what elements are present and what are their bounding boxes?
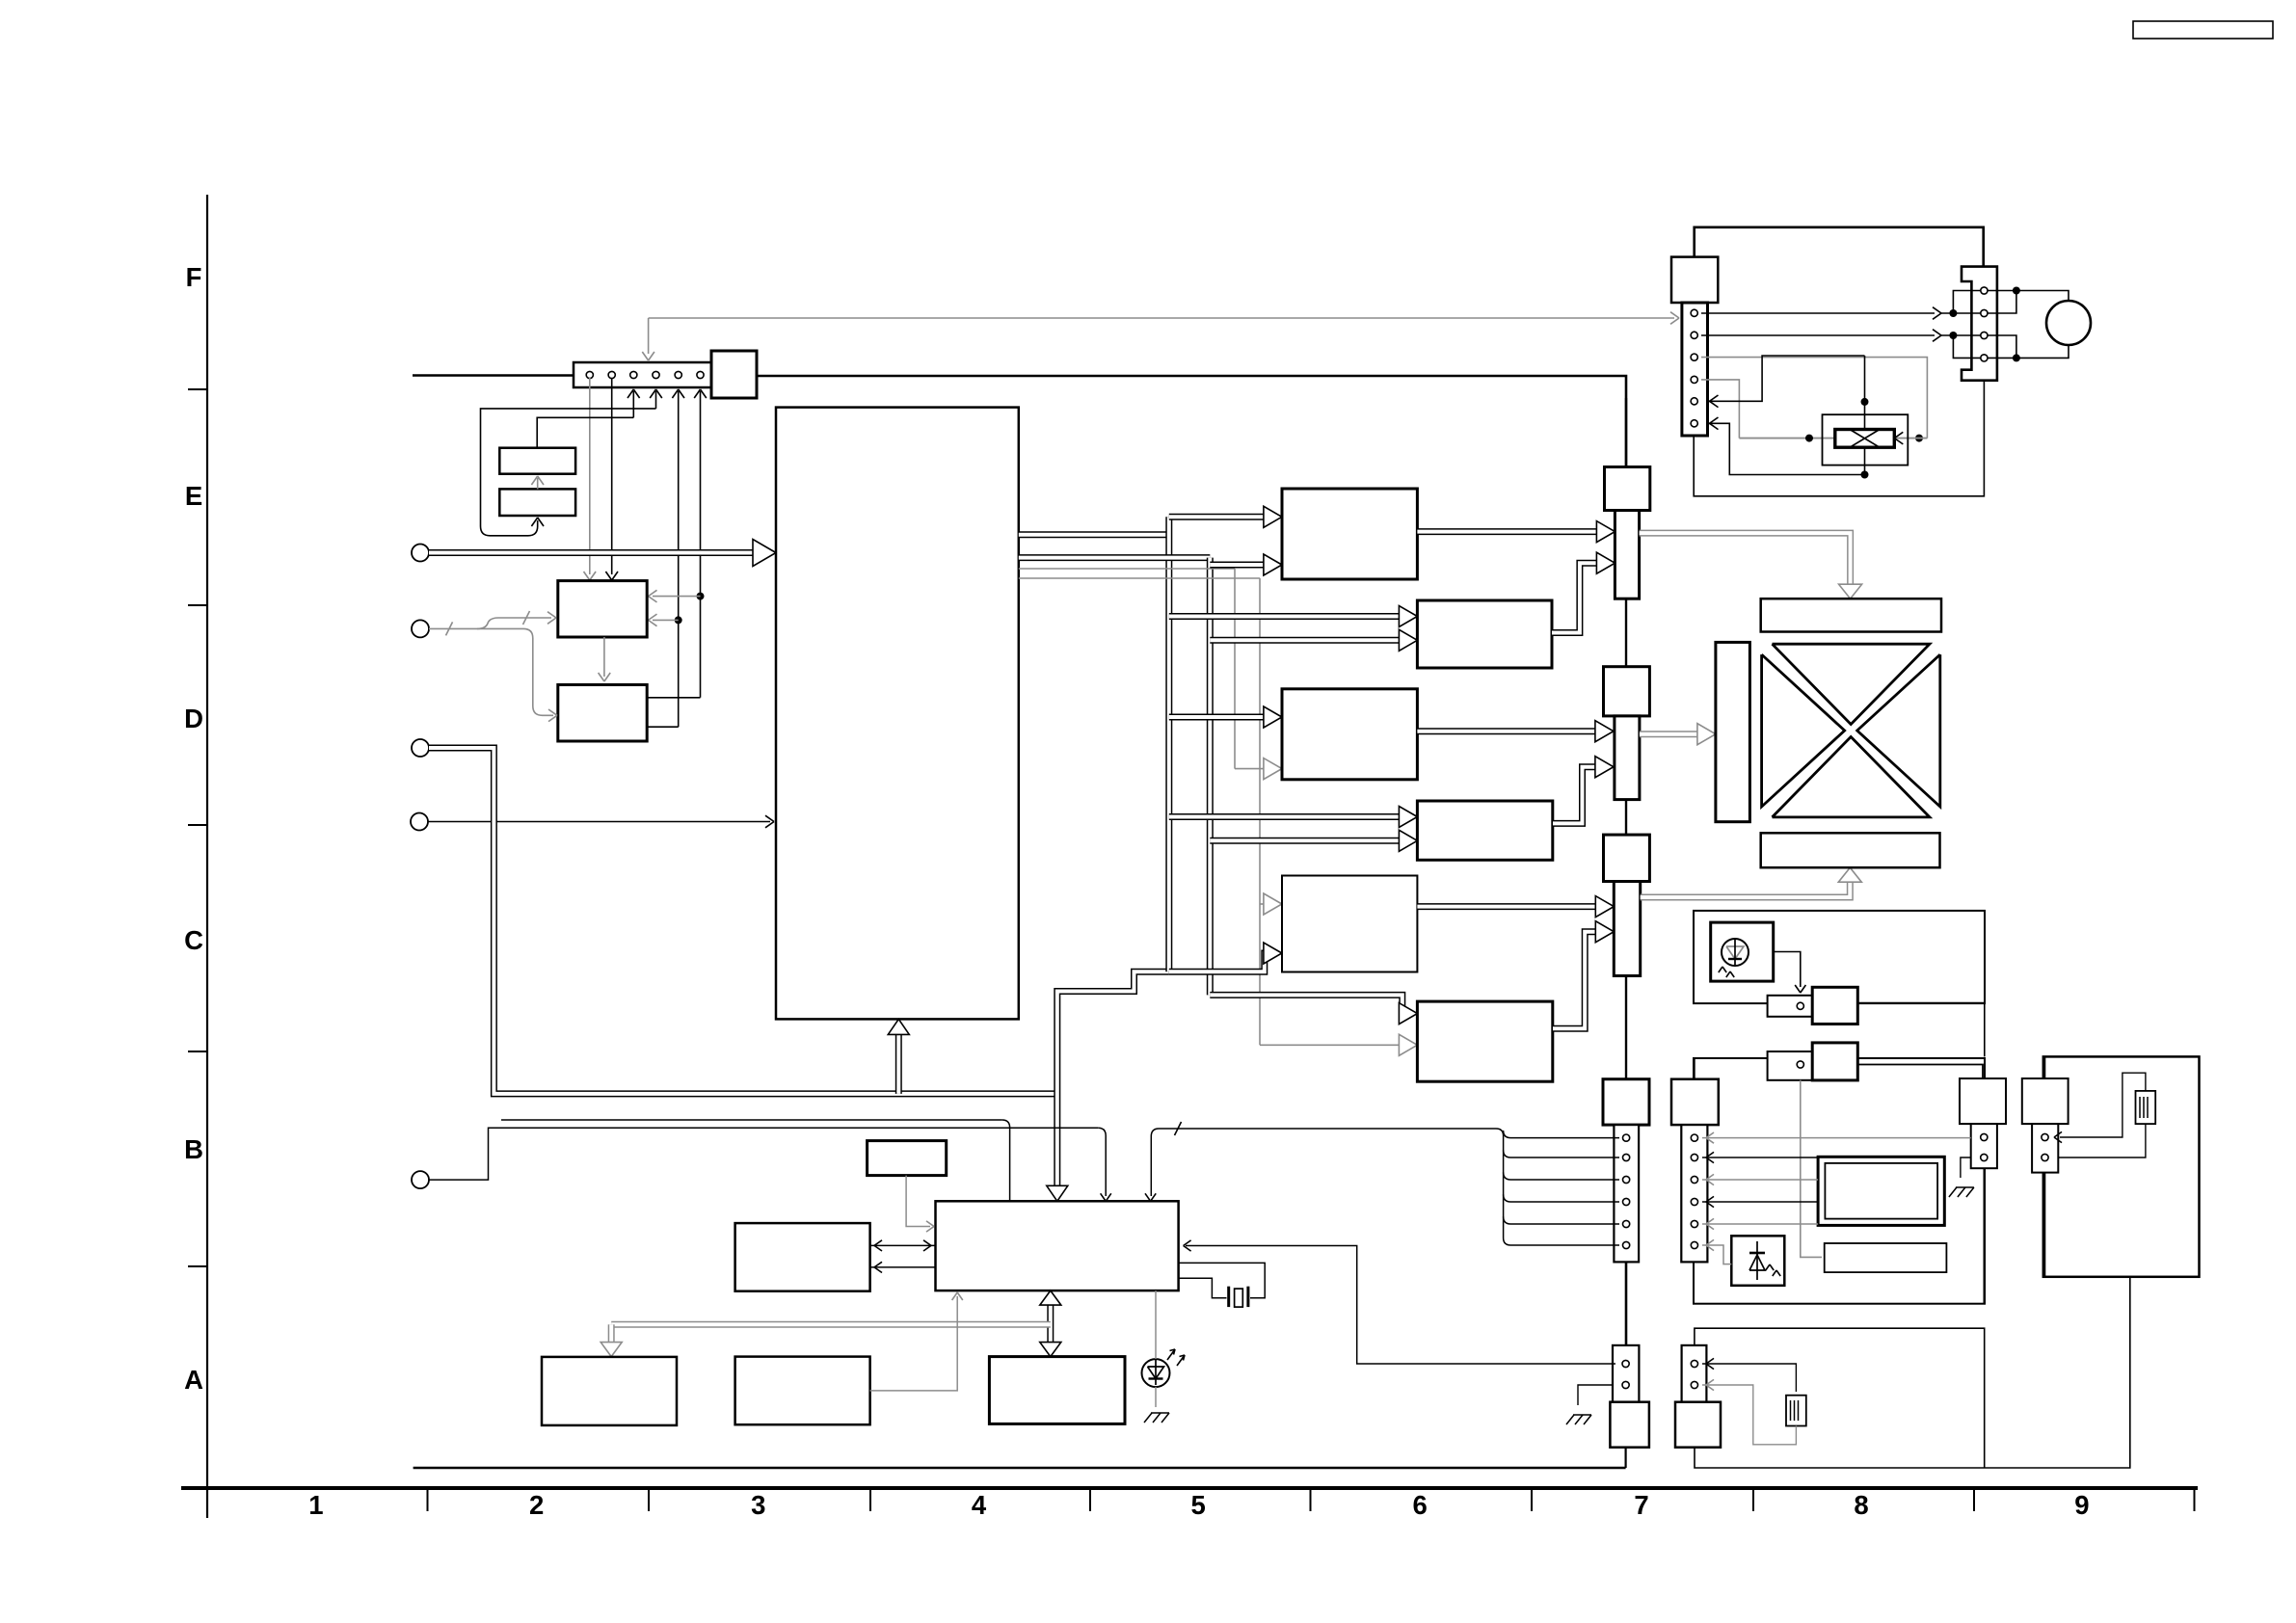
port P2 bbox=[412, 620, 429, 637]
ribbon branches bbox=[1504, 1131, 1619, 1138]
wire IC602 MCU bus2 bbox=[870, 1266, 936, 1268]
bus stub A1 in2 bbox=[1210, 562, 1269, 569]
wire H1 to CN207 pin1 bbox=[2060, 1073, 2146, 1137]
wire CN302 pin4 path bbox=[1701, 380, 1739, 439]
bus IC205 out2 bbox=[1019, 554, 1211, 561]
svg-text:6: 6 bbox=[1412, 1490, 1427, 1520]
svg-text:5: 5 bbox=[1190, 1490, 1205, 1520]
box IC202 bbox=[499, 448, 575, 474]
connector CN204 bbox=[1768, 996, 1813, 1017]
bus V1 bottom to A5 in2 bbox=[1169, 953, 1269, 971]
wire J1 to region2 bbox=[1857, 1003, 1985, 1057]
box A4 bbox=[1417, 801, 1552, 860]
wire CN302 pin6 path bbox=[1709, 423, 1865, 474]
symbol LED1 photo sensor bbox=[1722, 939, 1749, 966]
connector CN206 narrow bbox=[1971, 1124, 1997, 1168]
wire CN211 row3 bbox=[1702, 1179, 1818, 1181]
bus A6 out bbox=[1553, 932, 1601, 1029]
bus vertical V1 bbox=[1165, 517, 1172, 971]
svg-text:9: 9 bbox=[2074, 1490, 2089, 1520]
CN101 pins bbox=[586, 371, 593, 378]
box IC201 bbox=[558, 581, 647, 637]
junction pin6 bbox=[697, 593, 705, 600]
box photodiode PD1 bbox=[1731, 1236, 1784, 1286]
svg-text:3: 3 bbox=[751, 1490, 765, 1520]
cross box left triangle bbox=[1762, 654, 1845, 807]
connector CN203 body bbox=[1604, 835, 1650, 881]
wire gray stub A6 in2 bbox=[1260, 1044, 1404, 1046]
box A8 bbox=[542, 1357, 677, 1425]
wire CN211 row2 bbox=[1702, 1157, 1818, 1158]
wire CN101 pin1 to IC201 top bbox=[589, 378, 591, 574]
wire P2 split bbox=[429, 628, 553, 715]
wire CN302 pin2 to CN303 bbox=[1701, 334, 1935, 336]
box J2 bbox=[1812, 1043, 1857, 1080]
bus stub A4 in2 bbox=[1210, 838, 1404, 844]
fuse outer loop bbox=[1823, 414, 1909, 465]
wire IC201 to IC204 bbox=[603, 637, 605, 677]
wire CN205 to resistor box bbox=[1801, 1080, 1822, 1258]
wire IC203 to IC202 bbox=[537, 478, 539, 489]
wire CN209 stem to frame bbox=[1624, 1448, 1626, 1468]
bus CN202 out to driver bbox=[1640, 731, 1703, 737]
box J1 bbox=[1812, 987, 1857, 1024]
bus stub A1 in1 bbox=[1169, 514, 1269, 520]
wire CN210 top loop bbox=[1695, 1328, 1985, 1467]
box A7 bbox=[989, 1357, 1125, 1424]
bus stub A2 in2 bbox=[1210, 637, 1404, 644]
box MCU IC601 bbox=[936, 1201, 1179, 1290]
wire CN211 row5 bbox=[1702, 1223, 1818, 1225]
CN211 pins bbox=[1691, 1134, 1697, 1141]
bus P1 to IC205 bbox=[429, 549, 762, 556]
wire CN209 pin2 to ground bbox=[1578, 1385, 1613, 1405]
wire IC602 MCU bus1 bbox=[870, 1244, 936, 1246]
wire J2 to CN206 bbox=[1857, 1065, 1983, 1079]
grid bottom axis line bbox=[181, 1486, 2198, 1490]
region board KEY1 bbox=[2043, 1056, 2200, 1276]
wire fuse row bbox=[1739, 438, 1927, 439]
wire crystal top bbox=[1179, 1263, 1266, 1297]
connector CN210 strip bbox=[1682, 1345, 1707, 1402]
wire CN210 pin2 to H2 bbox=[1702, 1385, 1796, 1445]
svg-text:7: 7 bbox=[1634, 1490, 1648, 1520]
bus A2 out bbox=[1552, 563, 1602, 632]
symbol LED2 bbox=[1142, 1359, 1170, 1387]
connector CN207 narrow bbox=[2032, 1124, 2058, 1173]
wire CN101 pin5 down bbox=[678, 391, 680, 727]
connector CN211 strip bbox=[1681, 1125, 1707, 1262]
bus A5 out bbox=[1417, 903, 1601, 910]
page label box top right bbox=[2133, 21, 2273, 39]
bus IC205 out1 bbox=[1019, 531, 1169, 538]
connector CN209 strip bbox=[1613, 1345, 1639, 1402]
wire S1 to CN204 bbox=[1774, 952, 1801, 988]
box driver bar bbox=[1716, 642, 1750, 821]
connector CN207 body bbox=[2022, 1078, 2069, 1124]
bus CN201 out to top bar bbox=[1640, 533, 1851, 586]
CN210 pins bbox=[1691, 1360, 1697, 1367]
box IC602 bbox=[735, 1223, 870, 1291]
wire A9 to MCU bbox=[870, 1296, 958, 1391]
bus vertical V2 bbox=[1207, 558, 1214, 996]
grid left axis ticks bbox=[188, 388, 207, 390]
box LCD outer bbox=[1818, 1157, 1944, 1225]
wire MCU ribbon to CN208 bbox=[501, 1119, 1002, 1121]
svg-text:4: 4 bbox=[972, 1490, 987, 1520]
connector strip CN101 bbox=[574, 362, 711, 387]
wire CN101 pin3 to IC202 bbox=[537, 417, 633, 447]
bus MCU to A7 bbox=[1047, 1299, 1054, 1347]
wire CN303 right join bottom bbox=[1997, 335, 2016, 358]
svg-text:E: E bbox=[185, 481, 202, 511]
wire CN301 top loop bbox=[1695, 227, 1984, 267]
box R1 long bbox=[1825, 1243, 1947, 1272]
arrow into fuse bbox=[1894, 432, 1903, 438]
wire gray stub A5 in1 bbox=[1260, 903, 1269, 905]
connector CN205 bbox=[1768, 1051, 1813, 1080]
wire fuse bottom vertical bbox=[1864, 447, 1866, 474]
svg-text:1: 1 bbox=[308, 1490, 323, 1520]
CN302 pins bbox=[1691, 309, 1697, 316]
wire gray G1 vertical bbox=[1019, 568, 1235, 570]
box CN301 bbox=[1671, 257, 1718, 303]
port P5 bbox=[412, 1171, 429, 1188]
svg-text:F: F bbox=[186, 262, 202, 292]
box IC205 main IC bbox=[776, 408, 1019, 1020]
box IC204 bbox=[558, 685, 647, 742]
grid left axis line bbox=[206, 195, 208, 1518]
wire LED2 to ground bbox=[1155, 1387, 1157, 1407]
port P4 bbox=[411, 813, 428, 831]
junction w1 bbox=[1949, 309, 1957, 317]
wire CN303 right join top bbox=[1997, 291, 2016, 314]
bus stub A4 in1 bbox=[1169, 813, 1404, 820]
box LCD inner bbox=[1825, 1163, 1937, 1219]
connector CN203 narrow bbox=[1614, 882, 1640, 976]
CN207 pins bbox=[2042, 1133, 2048, 1140]
wire CN211 row4 bbox=[1702, 1201, 1818, 1203]
wire CN102 to main bus bbox=[757, 376, 1626, 467]
box A3 bbox=[1282, 689, 1417, 780]
wire CN211 row6 to PD1 bbox=[1702, 1245, 1731, 1264]
wire CN302 pin1 to CN303 bbox=[1701, 312, 1935, 314]
bus down to A8 bbox=[608, 1324, 615, 1345]
ground GND1 bbox=[1566, 1415, 1574, 1424]
box photo interrupter H2 bbox=[1786, 1396, 1806, 1426]
wire P5 to MCU bbox=[429, 1128, 1098, 1180]
box A5 bbox=[1282, 876, 1417, 972]
wire IC603 to MCU bbox=[906, 1176, 930, 1227]
svg-text:C: C bbox=[184, 925, 203, 955]
junction m2 bbox=[2013, 354, 2020, 361]
wire CN302 pin5 path bbox=[1709, 356, 1865, 401]
connector CN208 strip bbox=[1614, 1125, 1639, 1262]
junction pin5 bbox=[675, 616, 682, 624]
wire crystal bottom bbox=[1179, 1278, 1227, 1298]
region board DISPLAY2 bbox=[1694, 1058, 1985, 1304]
motor M bbox=[2046, 301, 2091, 345]
bus A3 out bbox=[1417, 728, 1600, 734]
wire to motor top bbox=[2016, 291, 2069, 302]
wire MCU to LED2 bbox=[1155, 1290, 1157, 1359]
bus P3 long bbox=[429, 748, 1057, 1094]
grid bottom axis ticks bbox=[206, 1488, 208, 1511]
CN206 pins bbox=[1981, 1133, 1988, 1140]
bus stub A3 in1 bbox=[1169, 714, 1269, 721]
wire CN101 pin6 down bbox=[700, 391, 702, 698]
wire CN211 row1 bbox=[1702, 1137, 1971, 1139]
wire gray G2 vertical bbox=[1019, 577, 1260, 579]
connector CN208 body bbox=[1603, 1079, 1649, 1125]
junction f3 bbox=[1861, 398, 1869, 406]
wire CN207 top link bbox=[2044, 1056, 2046, 1078]
cross box bottom triangle bbox=[1773, 737, 1930, 817]
box A2 bbox=[1417, 600, 1552, 668]
bus branch up into IC205 bottom bbox=[895, 1027, 902, 1094]
svg-text:8: 8 bbox=[1854, 1490, 1868, 1520]
main bus vertical bbox=[1625, 398, 1627, 1079]
CN209 pins bbox=[1622, 1360, 1629, 1367]
wire CN207 pin2 to H1 bbox=[2058, 1124, 2146, 1157]
bar box top bbox=[1761, 599, 1941, 631]
wire CN209 pin1 to MCU bbox=[1186, 1246, 1615, 1365]
junction f4 bbox=[1861, 471, 1869, 479]
svg-text:B: B bbox=[184, 1134, 203, 1164]
wire gray drop into CN101 bbox=[648, 318, 650, 354]
connector CN210 body bbox=[1675, 1402, 1721, 1448]
box photo interrupter H1 bbox=[2136, 1091, 2156, 1124]
junction m1 bbox=[2013, 287, 2020, 295]
ground GND2 bbox=[1144, 1413, 1152, 1423]
connector CN209 body bbox=[1610, 1402, 1649, 1448]
bus stub A2 in1 bbox=[1169, 613, 1404, 620]
port P1 bbox=[412, 545, 429, 562]
wire CN206 stem bbox=[1983, 1168, 1985, 1304]
connector CN211 body bbox=[1671, 1079, 1719, 1125]
wire stub left of strip CN101 bbox=[413, 374, 574, 377]
bar box bottom bbox=[1761, 833, 1940, 867]
wire CN303 row4 bracket bbox=[1953, 335, 1996, 358]
port P3 bbox=[412, 739, 429, 757]
wire bottom frame bbox=[414, 1467, 1626, 1470]
connector box CN102 bbox=[711, 351, 757, 398]
cross box right triangle bbox=[1857, 654, 1940, 807]
wire gray to right strip bbox=[649, 317, 1674, 319]
svg-text:D: D bbox=[184, 704, 203, 733]
wire CN101 pin4 to IC203 bbox=[481, 409, 656, 536]
cross box top triangle bbox=[1773, 644, 1930, 724]
junction f2 bbox=[1805, 435, 1813, 442]
wire P2 branch to IC201 bbox=[477, 618, 551, 628]
connector strip CN302 bbox=[1682, 303, 1708, 436]
wire CN101 pin2 to IC201 top bbox=[611, 378, 613, 574]
wire fuse top vertical bbox=[1864, 356, 1866, 430]
junction w2 bbox=[1949, 332, 1957, 339]
wire P4 to IC205 bbox=[428, 821, 770, 823]
wire CN302 bottom loop bbox=[1694, 381, 1984, 496]
bus A4 out bbox=[1553, 767, 1600, 824]
connector CN201 narrow bbox=[1615, 511, 1639, 599]
CN303 pins bbox=[1981, 287, 1988, 294]
box IC603 reset bbox=[868, 1141, 947, 1176]
crystal X601 bbox=[1227, 1287, 1230, 1307]
wire CN303 row1 bracket bbox=[1953, 291, 1996, 314]
svg-text:A: A bbox=[184, 1365, 203, 1395]
wire CN206 pin2 to ground bbox=[1961, 1157, 1971, 1178]
connector CN303 motor plug bbox=[1962, 267, 1997, 381]
bus cross link bbox=[611, 1321, 1051, 1328]
wire CN211 top link bbox=[1694, 1058, 1695, 1079]
wire MCU pin to CN208 ribbon bbox=[1151, 1129, 1619, 1245]
wire pin6 branch to IC201 bbox=[653, 596, 701, 598]
wire to motor bottom bbox=[2016, 345, 2069, 358]
box IC203 bbox=[499, 489, 575, 516]
wire CN207 stem bbox=[2044, 1173, 2046, 1277]
wire CN302 pin3 path bbox=[1701, 358, 1927, 439]
bus V2 bottom to A6 in1 bbox=[1210, 995, 1404, 1013]
box sensor S1 bbox=[1711, 922, 1774, 981]
wire gray stub A3 in2 bbox=[1235, 768, 1269, 770]
box A9 bbox=[735, 1357, 870, 1425]
wire CN210 to KEY1 board bbox=[1695, 1277, 2130, 1468]
connector CN201 body bbox=[1605, 467, 1650, 511]
fuse F301 bbox=[1835, 430, 1895, 448]
wire CN210 pin1 to H2 bbox=[1702, 1364, 1796, 1392]
bus IC205 to MCU bbox=[1057, 971, 1169, 1192]
CN208 pins bbox=[1623, 1134, 1630, 1141]
svg-text:2: 2 bbox=[529, 1490, 544, 1520]
bus A1 out bbox=[1417, 528, 1602, 535]
box A1 bbox=[1282, 489, 1417, 579]
junction f1 bbox=[1915, 435, 1923, 442]
connector CN202 narrow bbox=[1615, 716, 1640, 800]
bus CN203 out to bottom bar bbox=[1641, 880, 1851, 897]
connector CN206 body bbox=[1960, 1078, 2006, 1124]
main bus segment 2 bbox=[1625, 1262, 1628, 1345]
connector CN202 body bbox=[1604, 667, 1650, 716]
wire pin5 branch to IC201 bbox=[653, 619, 679, 621]
region board DISPLAY1 bbox=[1694, 911, 1985, 1003]
ground GND3 bbox=[1949, 1187, 1957, 1197]
box A6 bbox=[1417, 1001, 1552, 1081]
